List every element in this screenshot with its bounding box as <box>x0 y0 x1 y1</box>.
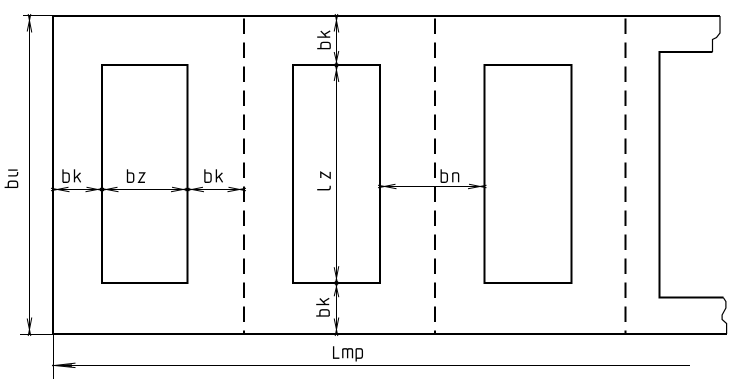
hole 1 <box>102 65 188 283</box>
extension line below bottom left corner for Lmp <box>53 335 55 379</box>
dimension line Lmp <box>53 365 690 367</box>
arrow down at hole bottom <box>334 266 339 285</box>
label bk bottom <box>316 298 329 316</box>
arrow Lmp left <box>52 363 76 368</box>
arrow left at x187.5 <box>186 187 205 192</box>
label lz <box>317 172 330 190</box>
arrow up at hole bottom <box>334 281 339 297</box>
arrow bn right <box>468 184 487 189</box>
extension line top left <box>23 15 53 17</box>
outer plate left edge <box>52 15 54 335</box>
dimension line bu <box>29 16 31 334</box>
label bu <box>5 170 18 187</box>
arrow right at x187.5 <box>171 187 190 192</box>
outer plate bottom edge <box>52 333 727 335</box>
arrow down at hole top <box>334 51 339 67</box>
dashed centerline 1 <box>243 19 245 334</box>
arrow bu top <box>27 14 32 33</box>
label Lmp <box>334 346 363 361</box>
label bk right <box>205 169 223 182</box>
arrow right at x244 <box>228 187 247 192</box>
dashed centerline 3 <box>625 19 627 334</box>
break line top right <box>713 16 721 52</box>
end notch top edge <box>659 51 713 53</box>
arrow center bottom down <box>334 318 339 337</box>
arrow right at x102 <box>86 187 105 192</box>
hole 2 <box>293 65 380 283</box>
hole 3 <box>485 65 572 283</box>
arrow bn left <box>378 184 397 189</box>
break line bottom right <box>722 298 727 334</box>
arrow center top up <box>334 14 339 33</box>
dimension line bn <box>380 186 485 188</box>
label bz <box>128 169 146 182</box>
end notch left edge <box>659 51 661 299</box>
arrow bu bottom <box>27 318 32 337</box>
extension line bottom left <box>20 334 53 336</box>
arrow left at x53 <box>51 187 70 192</box>
dimension line vertical center bk/lz/bk <box>336 16 338 334</box>
dashed centerline 2 <box>434 19 436 334</box>
outer plate top edge <box>52 15 720 17</box>
label bk top <box>317 31 330 49</box>
label bk left <box>63 169 81 182</box>
arrow left at x102 <box>100 187 119 192</box>
end notch bottom edge <box>659 297 724 299</box>
dimension line bk bz bk <box>53 189 244 191</box>
label bn <box>441 169 458 182</box>
arrow up at hole top <box>334 64 339 83</box>
